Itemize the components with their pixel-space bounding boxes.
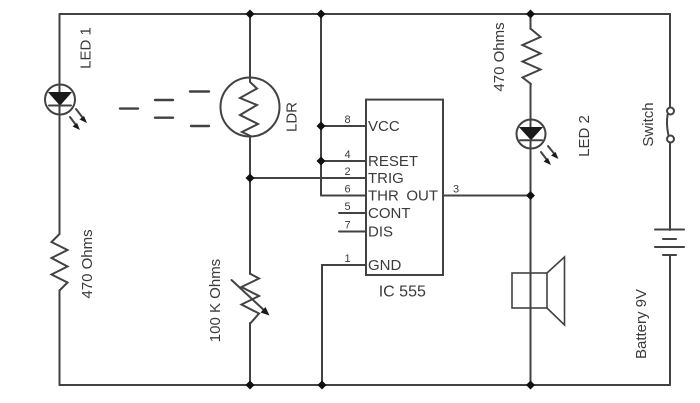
potentiometer 100 K Ohms: [232, 274, 270, 323]
svg-text:CONT: CONT: [368, 205, 411, 222]
junction node top rail / VCC line: [317, 10, 326, 19]
wire right rail upper: [669, 14, 671, 108]
speaker LS1: [512, 257, 565, 325]
wire 470 Ohms column top: [530, 14, 532, 29]
svg-text:OUT: OUT: [406, 188, 438, 205]
op-amp U1: IC 555 box: [366, 100, 443, 275]
wire bottom rail: [60, 384, 671, 386]
wire LDR column lower: [249, 323, 251, 385]
svg-text:6: 6: [344, 184, 350, 196]
wire pin 5 CONT stub: [339, 212, 366, 214]
svg-text:4: 4: [344, 149, 350, 161]
wire LED 2 to speaker: [530, 141, 532, 386]
junction node top rail / LDR: [246, 10, 255, 19]
wire pin 7 DIS stub: [339, 231, 366, 233]
wire LDR column middle: [249, 136, 251, 274]
junction node bottom rail / speaker column: [526, 381, 535, 390]
svg-text:1: 1: [344, 253, 350, 265]
svg-text:3: 3: [453, 184, 459, 196]
svg-text:Switch: Switch: [640, 102, 657, 146]
light ray dash 4: [190, 90, 209, 92]
svg-text:5: 5: [344, 201, 350, 213]
junction node TRIG / LDR column: [246, 174, 255, 183]
wire left rail lower: [59, 291, 61, 386]
svg-text:RESET: RESET: [368, 153, 418, 170]
wire left rail upper (through LED 1): [59, 14, 61, 234]
svg-text:LED 2: LED 2: [576, 115, 593, 157]
junction node RESET pin 4: [317, 157, 326, 166]
junction node bottom rail / GND line: [318, 381, 327, 390]
svg-text:DIS: DIS: [368, 224, 393, 241]
LED D2 (LED 2): [517, 120, 559, 166]
svg-text:100 K Ohms: 100 K Ohms: [207, 259, 224, 342]
wire pin 2 TRIG (to LDR junction): [250, 177, 366, 179]
svg-text:470 Ohms: 470 Ohms: [79, 229, 96, 298]
light ray dash 1: [120, 107, 138, 109]
wire pin 3 OUT: [443, 195, 531, 197]
svg-text:LDR: LDR: [284, 102, 301, 132]
svg-text:8: 8: [344, 114, 350, 126]
light ray dash 2: [155, 99, 173, 101]
wire battery to bottom rail: [669, 255, 671, 385]
wire VCC vertical (top rail to THR): [320, 14, 322, 196]
junction node top rail / 470 column: [526, 10, 535, 19]
svg-text:GND: GND: [368, 257, 402, 274]
wire pin 4 RESET: [321, 160, 366, 162]
light ray dash 3: [155, 116, 173, 118]
svg-text:TRIG: TRIG: [368, 170, 404, 187]
svg-text:VCC: VCC: [368, 118, 400, 135]
wire LDR column upper: [249, 14, 251, 82]
junction node VCC pin 8: [317, 122, 326, 131]
wire pin 6 THR: [321, 195, 366, 197]
svg-text:IC 555: IC 555: [379, 284, 426, 301]
svg-text:Battery 9V: Battery 9V: [633, 289, 650, 359]
wire between resistor and LED 2: [530, 84, 532, 127]
svg-text:2: 2: [344, 166, 350, 178]
photoresistor LDR: [221, 78, 280, 137]
wire switch to battery: [669, 143, 671, 231]
svg-text:7: 7: [344, 220, 350, 232]
switch S1: [667, 108, 674, 143]
svg-text:470 Ohms: 470 Ohms: [491, 22, 508, 91]
battery BT1 (9V): [655, 230, 684, 256]
junction node OUT / LED2 column: [526, 191, 535, 200]
wire top rail: [60, 13, 671, 15]
svg-text:THR: THR: [368, 188, 399, 205]
resistor 470 Ohms (right): [523, 29, 541, 84]
resistor 470 Ohms (left): [52, 234, 68, 291]
wire pin 1 GND to bottom rail: [322, 265, 366, 385]
LED D1 (LED 1): [45, 85, 87, 131]
junction node bottom rail / LDR column: [246, 381, 255, 390]
wire pin 8 VCC: [321, 125, 366, 127]
light ray dash 5: [191, 125, 209, 127]
svg-text:LED 1: LED 1: [78, 27, 95, 69]
